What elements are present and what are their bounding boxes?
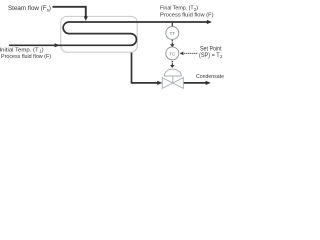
- steam inlet arrowhead: [84, 16, 88, 21]
- temperature controller TC circle: [166, 47, 179, 60]
- temperature transmitter TT circle: [166, 27, 179, 40]
- dashed signal TT to TC: [172, 40, 174, 42]
- arrowhead TC to valve: [170, 65, 174, 68]
- condensate outlet arrowhead: [206, 81, 211, 85]
- set point arrowhead into TC: [180, 52, 184, 56]
- dashed signal TC to valve: [172, 61, 174, 63]
- condensate arrowhead into valve: [157, 81, 162, 85]
- heat exchanger shell: [61, 16, 137, 52]
- svg-text:Process fluid flow (F): Process fluid flow (F): [1, 54, 51, 60]
- svg-text:Initial Temp. (T: Initial Temp. (T: [0, 48, 39, 54]
- svg-text:Steam flow (F: Steam flow (F: [8, 5, 47, 12]
- process outlet arrowhead: [207, 20, 212, 24]
- valve actuator dome: [164, 69, 181, 76]
- set point dotted line: [184, 53, 197, 54]
- svg-text:Process fluid flow (F): Process fluid flow (F): [160, 12, 214, 18]
- process inlet arrowhead: [55, 43, 60, 47]
- svg-text:(SP) = T: (SP) = T: [199, 53, 220, 59]
- condensate outlet line: [184, 82, 206, 84]
- control valve body right: [173, 78, 184, 89]
- svg-text:Condensate: Condensate: [196, 74, 225, 80]
- TT connector tick to process line: [171, 23, 173, 27]
- svg-text:Set Point: Set Point: [200, 46, 222, 52]
- steam inlet line Fs: [53, 7, 86, 17]
- svg-text:): ): [42, 48, 44, 54]
- svg-text:TT: TT: [169, 31, 175, 36]
- svg-text:Final Temp. (T: Final Temp. (T: [160, 6, 194, 12]
- svg-text:2: 2: [220, 54, 223, 59]
- svg-text:): ): [196, 6, 198, 12]
- svg-text:TC: TC: [169, 51, 176, 56]
- arrowhead TT to TC: [170, 44, 174, 47]
- process fluid line: inlet, serpentine coil, outlet: [9, 22, 208, 45]
- svg-text:): ): [49, 5, 51, 12]
- control valve body left: [162, 78, 173, 89]
- valve stem: [172, 76, 174, 83]
- condensate drain line from shell to valve: [132, 53, 158, 83]
